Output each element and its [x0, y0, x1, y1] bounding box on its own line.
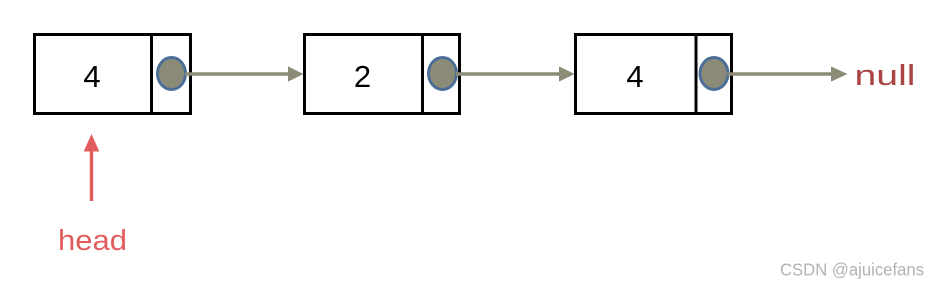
- svg-text:head: head: [58, 225, 127, 257]
- svg-text:4: 4: [83, 59, 100, 94]
- svg-text:4: 4: [626, 59, 643, 94]
- svg-text:null: null: [855, 60, 916, 92]
- svg-text:2: 2: [354, 59, 371, 94]
- svg-text:CSDN @ajuicefans: CSDN @ajuicefans: [780, 260, 924, 280]
